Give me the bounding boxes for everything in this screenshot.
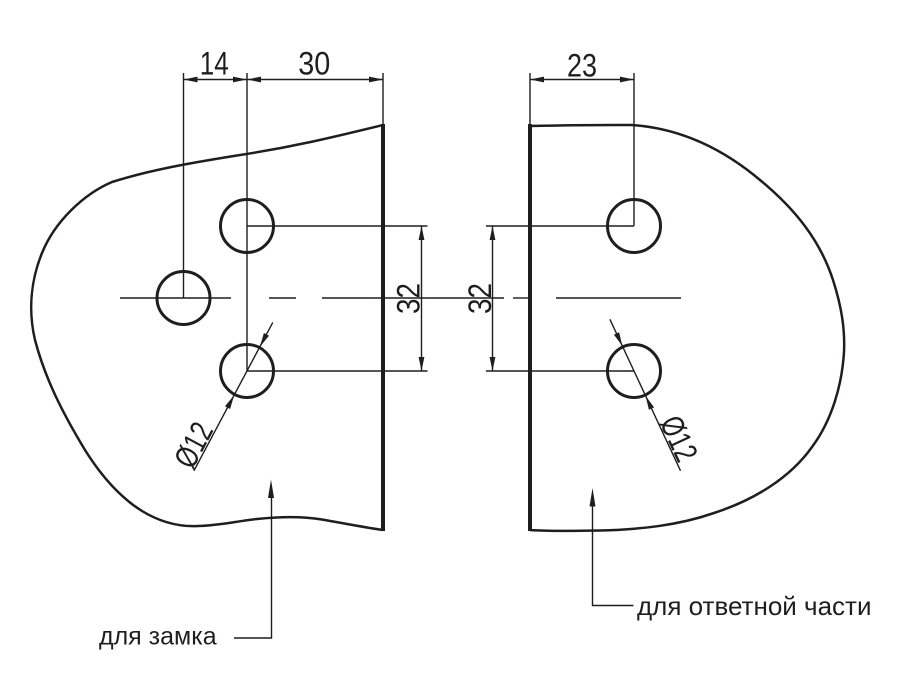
arrow phi12L lower (225, 395, 234, 409)
dimension line 23 (530, 79, 634, 81)
svg-text:32: 32 (462, 283, 498, 314)
hole right panel top (608, 200, 661, 253)
right panel glass edge (thick) (528, 124, 532, 531)
svg-text:14: 14 (200, 46, 229, 82)
extension from right bottom hole center (486, 370, 634, 372)
hole left panel bottom (221, 345, 274, 398)
extension line at right hole column x=634 (633, 73, 635, 226)
arrow dim30 left (247, 77, 261, 83)
arrow phi12R lower (646, 396, 655, 410)
left glass panel outline (31, 125, 383, 530)
arrow dim14 left (184, 77, 198, 83)
leader to right panel face (593, 501, 634, 606)
diameter leader right (610, 319, 681, 470)
arrow dim32R bottom (490, 357, 496, 371)
extension line above right panel edge x=530 (529, 73, 531, 124)
extension from left top hole center (247, 225, 428, 227)
extension line at left hole x=183.5 (183, 73, 185, 298)
diameter leader left (194, 322, 273, 470)
dimension line 32 left (421, 226, 423, 371)
leader to left panel face (234, 492, 272, 638)
arrow phi12L upper (260, 333, 269, 347)
arrow dim23 right (620, 77, 634, 83)
hole left panel left (157, 272, 210, 325)
svg-text:Ø12: Ø12 (167, 416, 220, 474)
svg-text:23: 23 (567, 48, 597, 84)
svg-text:для замка: для замка (99, 623, 217, 651)
arrow dim32R top (490, 226, 496, 240)
extension line above left panel edge x=383 (382, 73, 384, 124)
svg-text:Ø12: Ø12 (653, 410, 705, 467)
dimension line 14 (184, 79, 248, 81)
svg-text:32: 32 (390, 283, 426, 314)
dimension line 32 right (492, 226, 494, 371)
svg-text:для ответной части: для ответной части (637, 591, 871, 621)
dimension line 30 (247, 79, 383, 81)
extension from left bottom hole center (247, 370, 428, 372)
arrow dim14 right (233, 77, 247, 83)
svg-text:30: 30 (298, 46, 330, 82)
left panel glass edge (thick) (381, 124, 385, 531)
arrow dim32L bottom (419, 357, 425, 371)
extension from right top hole center (486, 225, 634, 227)
arrow dim23 left (530, 77, 544, 83)
horizontal centerline (dash-dot) (120, 297, 681, 299)
hole right panel bottom (608, 345, 661, 398)
arrow leader left label (268, 480, 274, 499)
arrow dim32L top (419, 226, 425, 240)
extension line at hole column x=247 (246, 73, 248, 371)
arrow leader right label (590, 488, 596, 507)
arrow phi12R upper (614, 332, 623, 346)
right glass panel outline (530, 125, 844, 531)
hole left panel top (221, 200, 274, 253)
arrow dim30 right (369, 77, 383, 83)
